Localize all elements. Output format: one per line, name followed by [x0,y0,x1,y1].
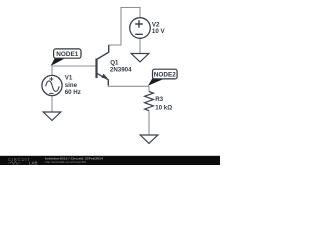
svg-text:10 kΩ: 10 kΩ [155,104,172,111]
svg-text:2N3904: 2N3904 [110,66,132,73]
svg-text:NODE1: NODE1 [56,51,78,58]
svg-text:LAB: LAB [29,160,37,165]
svg-text:R3: R3 [155,96,163,103]
svg-text:60 Hz: 60 Hz [65,89,81,96]
svg-text:10 V: 10 V [152,28,166,35]
svg-text:NODE2: NODE2 [154,72,176,79]
svg-text:http://circuitlab.com/c/xxwz4t: http://circuitlab.com/c/xxwz4t5 [45,160,86,164]
svg-text:V1: V1 [65,75,73,82]
